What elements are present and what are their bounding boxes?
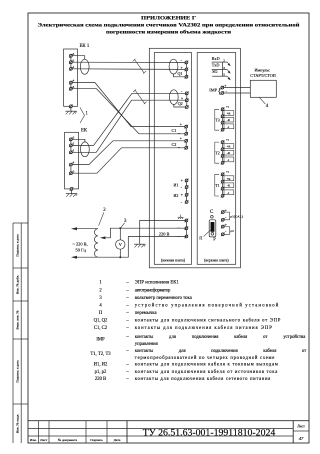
svg-text:р1(CAL): р1(CAL)	[230, 214, 242, 218]
label Q1	[178, 71, 183, 76]
Q1 cable shield ellipse	[169, 59, 178, 74]
item 4 leader and label	[259, 97, 269, 109]
EK2 terminal strip line (pins 3-1)	[70, 139, 72, 152]
label EK 1	[80, 44, 90, 49]
item 2 leader and label	[99, 208, 107, 226]
T1 terminal +I	[221, 170, 229, 176]
upper board (верхняя плата) body	[197, 53, 236, 265]
wire IMP minus to START box	[224, 92, 251, 94]
mains wire lower with arrow	[71, 256, 98, 259]
sheet number 47	[299, 436, 304, 441]
svg-text:IMP: IMP	[209, 87, 217, 92]
legend row 3	[99, 296, 192, 301]
p2 terminal minus	[221, 229, 227, 236]
T1 bracket and label	[215, 174, 220, 196]
EK2 pin 5	[69, 169, 75, 175]
Q2 shield terminal	[185, 105, 189, 109]
T2 link box -I	[224, 157, 234, 162]
legend row 2	[99, 288, 171, 293]
Q2 terminal minus	[181, 89, 189, 96]
jumper receptacle slot	[209, 220, 216, 237]
svg-text:IMP: IMP	[96, 337, 105, 342]
svg-text:И1, И2: И1, И2	[94, 363, 108, 368]
svg-text:автотрансформатор: автотрансформатор	[135, 288, 171, 293]
T3 link box +R	[224, 111, 234, 116]
svg-text:Т2: Т2	[215, 151, 219, 155]
wire IMP plus to START box	[224, 87, 251, 89]
RxD row: label, wire, pin 2, arrow	[212, 56, 231, 66]
counter panel outer body	[149, 48, 240, 267]
T2 link box -R	[224, 150, 234, 155]
220V terminal strip line	[185, 220, 187, 236]
T2 terminal 2	[221, 147, 225, 151]
svg-text:Импульс: Импульс	[254, 67, 270, 72]
svg-text:контакты для подключения кабел: контакты для подключения кабеля питания …	[135, 326, 272, 331]
T1 terminal 4	[221, 194, 225, 198]
svg-text:Подпись: Подпись	[90, 438, 103, 442]
p1 terminal minus	[221, 214, 227, 221]
EK1 ground pin	[69, 105, 73, 109]
T2 bracket and label	[215, 142, 220, 163]
T3 link box -I	[224, 124, 234, 129]
T3 terminal 4	[221, 128, 225, 132]
Q2 shield wire	[174, 104, 187, 107]
label p2	[230, 229, 234, 233]
label C2	[172, 142, 177, 147]
control unit box (START/STOP)	[250, 80, 276, 97]
jumper C contact	[211, 216, 214, 219]
svg-text:C2: C2	[172, 142, 177, 147]
TxD row: label, wire, pin 3, arrow	[212, 63, 231, 74]
T3 terminal +I	[221, 105, 229, 111]
EK2 pin 3	[69, 135, 75, 141]
svg-text:ЭПР исполнения ЕК1: ЭПР исполнения ЕК1	[135, 281, 180, 286]
serial port common line	[221, 62, 223, 76]
svg-text:Т1, Т2, Т3: Т1, Т2, Т3	[90, 352, 111, 357]
T3 bracket and label	[215, 109, 220, 130]
cable break mark on Q2 pair	[133, 89, 147, 104]
lower board (нижняя плата) body	[154, 53, 191, 265]
voltmeter upper lead	[119, 228, 121, 240]
jumper position C label	[210, 210, 214, 215]
svg-text:-I: -I	[227, 191, 229, 195]
wire 220V earth terminal to ground	[140, 220, 187, 244]
svg-text:Q1: Q1	[178, 71, 183, 76]
svg-text:термопреобразователей по четыр: термопреобразователей по четырех проводн…	[135, 356, 274, 361]
label EK 2	[81, 128, 88, 133]
svg-text:Q2: Q2	[178, 101, 183, 106]
EK1 cable shield ellipse	[80, 59, 89, 74]
voltmeter V (item 3)	[116, 240, 125, 249]
C2 terminal plus	[180, 136, 188, 143]
wire EK1 pin1 to Q1 plus	[72, 68, 186, 71]
svg-text:ПРИЛОЖЕНИЕ Г: ПРИЛОЖЕНИЕ Г	[141, 16, 197, 22]
T2 link box +R	[224, 144, 234, 149]
left sidebar column lines	[13, 223, 28, 443]
sidebar label: Инв. № дубл.	[15, 275, 19, 294]
legend row П	[99, 311, 158, 316]
C2 terminal tilde	[178, 145, 188, 150]
svg-text:+I: +I	[226, 138, 229, 142]
svg-text:TxD: TxD	[212, 63, 220, 68]
svg-text:Изм.: Изм.	[30, 438, 37, 442]
Q1 shield terminal	[185, 75, 189, 79]
220V terminal tilde 2	[177, 234, 188, 239]
svg-text:Т1: Т1	[215, 184, 219, 188]
Q1 terminal minus	[181, 58, 189, 65]
svg-text:контакты для подключения кабел: контакты для подключения кабеля от	[135, 349, 306, 354]
wire EK2 pin1 to Q2 plus	[72, 100, 187, 152]
label (верхняя плата)	[204, 259, 229, 263]
svg-text:контакты для подключения кабел: контакты для подключения кабеля к токовы…	[135, 363, 278, 368]
220V terminal tilde 1	[177, 226, 188, 231]
svg-text:Подпись и дата: Подпись и дата	[15, 234, 19, 257]
T3 terminal 2	[221, 114, 225, 118]
T1 link box +R	[224, 176, 234, 181]
wire EK1 pin2 to Q1 minus	[72, 61, 186, 63]
svg-text:-I: -I	[227, 158, 229, 162]
T1 terminal 2	[221, 180, 225, 184]
EK1 pin 3	[69, 52, 75, 58]
jumper P (installed, black)	[211, 222, 215, 232]
wiper arrow of autotransformer	[100, 228, 186, 239]
svg-text:перемычка: перемычка	[135, 311, 158, 316]
Q1 terminal plus	[181, 65, 189, 71]
sheet label cell	[297, 425, 305, 429]
Q2 terminal strip line	[186, 93, 188, 107]
Q2 terminal plus	[181, 96, 189, 102]
220V earth terminal	[185, 219, 189, 223]
svg-text:р2: р2	[230, 229, 234, 233]
legend row p1 p2	[95, 370, 279, 375]
svg-text:Лист: Лист	[40, 438, 48, 442]
C1 terminal plus	[180, 121, 188, 128]
svg-text:контакты для подключения кабел: контакты для подключения кабеля от источ…	[135, 370, 278, 375]
svg-text:(нижняя плата): (нижняя плата)	[161, 259, 186, 263]
EK2 ground wire	[71, 190, 73, 193]
svg-text:СТАРТ/СТОП: СТАРТ/СТОП	[250, 73, 276, 78]
title block grid	[28, 421, 309, 443]
T1 link box -R	[224, 183, 234, 188]
svg-text:контакты для подключения сигна: контакты для подключения сигнального каб…	[135, 319, 281, 324]
svg-text:SG: SG	[212, 69, 217, 74]
wire EK1 pin5 to C1 tilde	[72, 89, 186, 134]
EK1 pin 5	[69, 85, 75, 91]
item 1 leader for EK meters	[80, 108, 89, 124]
p1 bracket	[224, 212, 229, 220]
label ~ 220 В, 50 Гц	[73, 241, 88, 252]
svg-text:(верхняя плата): (верхняя плата)	[204, 259, 229, 263]
voltmeter lower lead	[119, 249, 121, 257]
label I1	[174, 183, 179, 188]
C2 terminal strip line	[185, 141, 187, 148]
T2 terminal +I	[221, 138, 229, 144]
sidebar label: Подпись и дата (lower)	[15, 360, 19, 383]
heading line 3	[106, 29, 231, 36]
legend row C1 C2	[94, 326, 272, 331]
sidebar label: Взам. инв. №	[15, 310, 19, 330]
EK2 shield wire from pin 3	[72, 139, 85, 142]
legend row T1 T2 T3 (two lines)	[90, 349, 306, 361]
svg-text:р1, р2: р1, р2	[95, 370, 107, 375]
svg-text:погрешности измерения объема ж: погрешности измерения объема жидкости	[106, 29, 231, 36]
heading line 2	[38, 22, 300, 29]
svg-text:ТУ 26.51.63-001-19911810-2024: ТУ 26.51.63-001-19911810-2024	[143, 428, 276, 439]
T1 terminal strip line	[222, 174, 224, 196]
legend row I1 I2	[94, 363, 278, 368]
svg-text:+I: +I	[226, 170, 229, 174]
svg-text:контакты для подключения кабел: контакты для подключения кабеля от устро…	[135, 335, 306, 340]
wire EK2 pin5 to C2 tilde	[72, 148, 186, 173]
T3 terminal 3	[221, 121, 225, 125]
svg-text:Лист: Лист	[297, 425, 305, 429]
IMP terminal plus	[221, 83, 228, 89]
svg-text:RxD: RxD	[212, 56, 220, 61]
Q2 cable shield ellipse	[169, 90, 178, 105]
T2 terminal 3	[221, 154, 225, 158]
legend row 220 В	[95, 377, 271, 382]
T2 terminal 4	[221, 161, 225, 165]
svg-text:управления: управления	[135, 342, 159, 347]
svg-text:Дата: Дата	[114, 438, 121, 442]
cable break mark on Q1 pair	[133, 59, 147, 74]
svg-text:220 В: 220 В	[159, 232, 170, 237]
svg-text:C1, C2: C1, C2	[94, 326, 108, 331]
label C1	[172, 128, 177, 133]
EK2 pin 1	[69, 148, 75, 154]
svg-text:220 В: 220 В	[95, 377, 106, 382]
svg-text:Взам. инв. №: Взам. инв. №	[15, 310, 19, 330]
svg-text:ЕК: ЕК	[81, 128, 88, 133]
svg-text:Т3: Т3	[215, 118, 219, 122]
svg-text:Электрическая схема подключени: Электрическая схема подключения счетчико…	[38, 22, 300, 29]
label Q2	[178, 101, 183, 106]
svg-text:Q1, Q2: Q1, Q2	[94, 319, 108, 324]
SG row: label, wire, pin 5, arrow	[212, 69, 230, 80]
document number ТУ 26.51.63-001-19911810-2024	[143, 428, 276, 439]
T2 terminal strip line	[222, 142, 224, 163]
legend row Q1 Q2	[94, 319, 281, 324]
I1-I2 terminal strip line	[186, 180, 188, 202]
wire EK2 pin4 to C2 plus	[72, 141, 186, 165]
C1 terminal strip line	[185, 127, 187, 134]
meter EK1 body	[64, 49, 78, 106]
legend row 1	[99, 281, 179, 286]
label П with leader	[199, 230, 210, 240]
label I2	[174, 193, 179, 198]
svg-text:Инв. № подл.: Инв. № подл.	[15, 414, 19, 433]
mains wire upper with arrow	[71, 227, 98, 230]
svg-text:47: 47	[299, 436, 304, 441]
svg-text:Инв. № дубл.: Инв. № дубл.	[15, 275, 19, 294]
item 3 leader and label	[121, 219, 127, 228]
wire EK1 pin4 to C1 plus	[72, 83, 186, 127]
svg-text:вольтметр переменного тока: вольтметр переменного тока	[135, 296, 193, 301]
ground (EK2)	[66, 194, 77, 197]
svg-text:+I: +I	[226, 105, 229, 109]
EK1 terminal strip line (pins 3-1)	[70, 56, 72, 69]
svg-text:устройство управления поверочн: устройство управления поверочной установ…	[135, 304, 279, 309]
svg-text:контакты для подключения кабел: контакты для подключения кабеля сетевого…	[135, 377, 271, 382]
I2 terminal minus	[181, 200, 189, 205]
EK1 pin 1	[69, 65, 75, 71]
svg-text:И2: И2	[174, 193, 179, 198]
T1 terminal 3	[221, 187, 225, 191]
label СТАРТ/СТОП	[250, 73, 276, 78]
EK2 ground pin	[70, 187, 74, 191]
svg-text:C1: C1	[172, 128, 177, 133]
label Р below slot	[213, 237, 216, 242]
T1 link box -I	[224, 190, 234, 195]
Q1 shield wire	[174, 74, 187, 77]
EK2 cable shield ellipse	[81, 142, 90, 157]
heading: ПРИЛОЖЕНИЕ Г	[141, 16, 197, 22]
label 220 В	[159, 232, 170, 237]
I2 terminal plus	[181, 192, 189, 197]
EK1 pin 4	[69, 79, 75, 85]
svg-text:И1: И1	[174, 183, 179, 188]
svg-text:-I: -I	[227, 125, 229, 129]
p1 terminal plus	[221, 207, 228, 214]
svg-text:№ документа: № документа	[58, 438, 78, 442]
title block header labels	[30, 438, 121, 442]
EK1 pin 2	[69, 58, 75, 64]
junction dot at coil bottom wire	[119, 256, 121, 258]
autotransformer T (item 2) coil	[94, 229, 98, 257]
svg-text:{: {	[218, 87, 221, 95]
EK1 shield wire from pin 3	[72, 56, 84, 60]
EK2 pin 4	[69, 161, 75, 167]
svg-text:Подпись и дата: Подпись и дата	[15, 360, 19, 383]
meter EK2 body	[65, 132, 79, 189]
sidebar label: Инв. № подл.	[15, 414, 19, 433]
EK2 pin 2	[69, 142, 75, 148]
ground (mains side)	[134, 244, 145, 247]
p2 bracket	[224, 227, 229, 235]
label (нижняя плата)	[161, 259, 186, 263]
svg-text:ЕК 1: ЕК 1	[80, 44, 90, 49]
wire EK2 pin2 to Q2 minus	[72, 93, 187, 145]
wire coil bottom to 220V tilde2	[98, 237, 186, 258]
small earth mark above 220V terminal	[178, 215, 184, 219]
C1 terminal tilde	[178, 131, 188, 136]
IMP terminal minus	[221, 89, 228, 95]
label Импульс	[254, 67, 270, 72]
junction dot voltmeter tap	[119, 227, 121, 229]
legend row IMP (two lines)	[96, 335, 306, 347]
IMP label and brace	[209, 87, 221, 95]
EK2 terminal strip line (pins 4-5)	[70, 165, 72, 174]
jumper lower contact	[211, 233, 214, 236]
T3 terminal strip line	[222, 109, 224, 130]
sidebar label: Подпись и дата (upper)	[15, 234, 19, 257]
I1 terminal minus	[181, 185, 189, 190]
svg-text:50 Гц: 50 Гц	[76, 248, 87, 253]
legend row 4	[99, 304, 278, 309]
ground (EK1)	[65, 111, 76, 114]
I1 terminal plus	[181, 178, 189, 183]
label p1(CAL)	[230, 214, 242, 218]
p2 terminal plus	[221, 222, 228, 229]
EK1 terminal strip line (pins 4-5)	[70, 83, 72, 89]
Q1 terminal strip line	[185, 62, 187, 76]
T3 link box -R	[224, 117, 234, 122]
EK1 ground wire	[70, 108, 72, 112]
